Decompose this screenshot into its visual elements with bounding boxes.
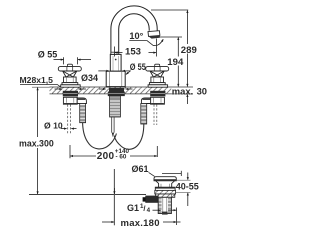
spout column — [110, 52, 121, 71]
dim 153 — [115, 39, 157, 57]
svg-text:289: 289 — [181, 45, 197, 56]
M28x1,5 leader — [20, 85, 61, 88]
spout shank thread below deck — [108, 88, 125, 117]
svg-text:Ø 55: Ø 55 — [130, 62, 146, 72]
svg-text:max.300: max.300 — [19, 138, 54, 148]
svg-text:10°: 10° — [129, 31, 143, 41]
drain side port — [143, 196, 158, 203]
center extension line with arrow — [113, 169, 115, 225]
svg-text:200: 200 — [97, 151, 115, 162]
drain flange cap — [154, 177, 176, 181]
dim Ø55 left: arrows and ticks — [54, 57, 92, 64]
drain tailpiece thread — [158, 197, 171, 214]
arrow to center ext at G level — [168, 209, 176, 211]
dim 194 — [159, 37, 182, 87]
max.30 bottom arrow — [186, 94, 188, 104]
right valve escutcheon — [149, 83, 165, 85]
drain neck — [156, 181, 175, 187]
svg-text:40-55: 40-55 — [176, 182, 199, 192]
spout gooseneck — [111, 6, 157, 56]
svg-text:30: 30 — [197, 86, 207, 97]
drain center extension line — [176, 208, 178, 226]
right valve tail dashed pipe — [154, 105, 157, 126]
max.30 label — [172, 86, 209, 97]
left valve elbow — [77, 98, 86, 104]
svg-text:Ø61: Ø61 — [132, 164, 149, 174]
label G1 1/4 — [127, 203, 161, 214]
dim arrows at spout escutcheon deck level — [99, 88, 133, 90]
drain base ring — [155, 187, 175, 190]
right valve mounting nut — [150, 91, 165, 97]
drain locknut — [156, 194, 175, 197]
right corrugated hose — [141, 104, 147, 125]
svg-text:Ø 10: Ø 10 — [44, 120, 63, 130]
svg-text:max.180: max.180 — [121, 218, 160, 229]
label 10° — [129, 31, 163, 45]
dim 200 with tolerance — [70, 145, 157, 158]
right valve cross handle (side view) — [146, 64, 169, 82]
spout supply tube below shank — [112, 117, 114, 137]
right valve elbow — [141, 98, 150, 104]
spout escutcheon — [106, 71, 125, 87]
svg-text:M28x1,5: M28x1,5 — [20, 75, 54, 85]
Ø55 right leader — [126, 71, 131, 75]
dim 289 — [151, 10, 188, 87]
svg-text:153: 153 — [125, 47, 141, 58]
svg-text:4: 4 — [147, 207, 151, 214]
svg-text:194: 194 — [167, 57, 184, 68]
left valve escutcheon — [62, 83, 78, 85]
svg-text:- 60: - 60 — [116, 154, 127, 161]
hose depth reference line — [29, 193, 146, 195]
right valve body — [151, 97, 165, 104]
left corrugated hose — [80, 104, 86, 123]
svg-text:G1: G1 — [127, 203, 139, 213]
left valve tail dashed pipe — [68, 105, 71, 135]
svg-text:max.: max. — [172, 86, 193, 97]
left valve mounting nut — [63, 91, 78, 97]
dim arrows at left valve deck level — [55, 88, 87, 90]
dim Ø34 arrows at spout column — [98, 70, 130, 72]
deck — [32, 87, 193, 94]
right flexible hose loop — [114, 124, 144, 149]
spout outlet tip — [148, 31, 160, 39]
left flexible hose loop — [83, 123, 117, 149]
spout escutcheon base edge — [107, 86, 126, 88]
svg-text:Ø34: Ø34 — [81, 73, 98, 83]
left valve cross handle — [58, 64, 81, 82]
svg-text:Ø 55: Ø 55 — [38, 50, 58, 60]
left valve body — [63, 97, 77, 104]
drain seal (hatched) — [155, 190, 176, 194]
